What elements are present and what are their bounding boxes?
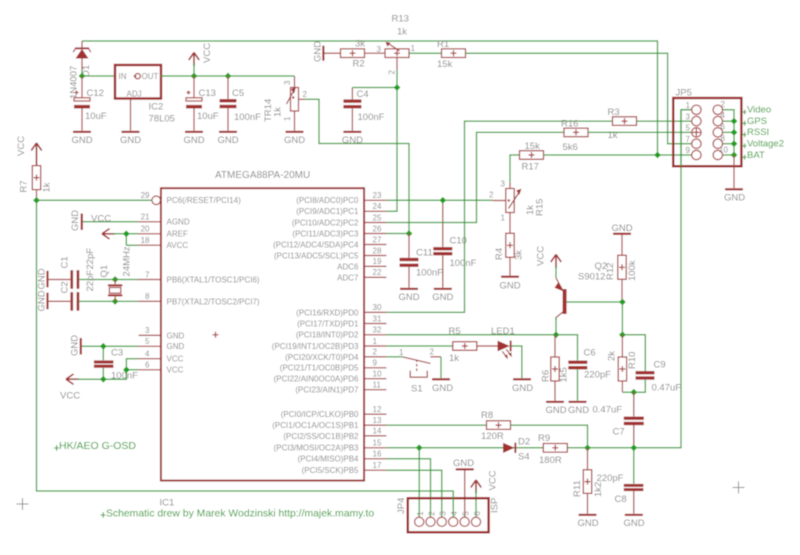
pin 24 (PCI9/ADC1)PC1 — [296, 202, 386, 216]
svg-text:PB6(XTAL1/TOSC1/PCI6): PB6(XTAL1/TOSC1/PCI6) — [167, 275, 260, 284]
wire R5 to LED1 — [477, 345, 498, 347]
svg-text:VCC: VCC — [16, 136, 27, 156]
node junction rail/pin9 — [654, 152, 661, 159]
svg-text:(PCI19/INT1/OC2B)PD3: (PCI19/INT1/OC2B)PD3 — [272, 342, 359, 351]
pin 25 (PCI10/ADC2)PC2 — [292, 213, 387, 227]
wire VCC to pins 4/6 — [77, 359, 138, 380]
ground GND rotated at R2 — [313, 41, 341, 62]
svg-text:2: 2 — [721, 100, 726, 109]
svg-text:12: 12 — [373, 405, 382, 414]
svg-text:C3: C3 — [111, 348, 123, 359]
svg-text:VCC: VCC — [202, 43, 213, 63]
svg-text:C5: C5 — [232, 88, 244, 99]
LED LED1 — [491, 326, 515, 360]
svg-text:16: 16 — [373, 450, 382, 459]
ground GND rotated at pin5 — [70, 335, 82, 356]
power VCC arrow top — [189, 43, 213, 66]
svg-text:5: 5 — [686, 124, 691, 133]
pin 21 AGND — [138, 213, 190, 227]
ground GND under C4 — [342, 131, 363, 146]
svg-text:Schematic drew by Marek Wodzin: Schematic drew by Marek Wodzinski http:/… — [106, 509, 374, 520]
ground GND under TR14 — [284, 131, 305, 146]
wire R1 to JP5 pin7 — [466, 53, 692, 144]
pin 19 ADC6 — [337, 257, 386, 271]
svg-text:D2: D2 — [518, 437, 530, 448]
svg-text:1N4007: 1N4007 — [69, 66, 80, 99]
svg-text:120R: 120R — [481, 431, 504, 442]
wire Q2 collector down — [555, 317, 557, 335]
svg-text:1k: 1k — [397, 27, 407, 38]
capacitor C12 — [74, 76, 107, 131]
ground GND rotated at pin21 AGND — [70, 210, 83, 231]
pin 1 (PCI19/INT1/OC2B)PD3 — [272, 337, 387, 351]
svg-text:26: 26 — [373, 224, 382, 233]
wire XTAL2 — [79, 300, 138, 302]
ground GND under C13 — [183, 131, 204, 146]
pin 28 (PCI13/ADC5/SCL)PC5 — [274, 246, 386, 260]
wire XTAL1 — [79, 279, 138, 281]
svg-text:5k6: 5k6 — [563, 142, 578, 153]
pin JP4-1 — [415, 511, 425, 527]
svg-text:HK/AEO G-OSD: HK/AEO G-OSD — [59, 440, 136, 452]
pin 9 (PCI21/T1/OC0B)PD5 — [280, 359, 387, 373]
svg-text:10: 10 — [373, 370, 382, 379]
wire R10 bottom to C7 — [622, 391, 633, 393]
capacitor C9 0.47uF — [634, 360, 681, 394]
ground GND under R11 — [577, 514, 598, 529]
wire RESET net — [37, 200, 454, 517]
svg-text:GND: GND — [342, 135, 363, 146]
svg-text:2k: 2k — [607, 351, 618, 361]
node junction XTAL2 — [112, 298, 119, 305]
node junction pin26/C11 — [406, 230, 413, 237]
node junction C3 bottom — [100, 376, 107, 383]
svg-text:100nF: 100nF — [358, 112, 385, 123]
pin 26 (PCI11/ADC3)PC3 — [292, 224, 386, 238]
svg-text:VCC: VCC — [60, 391, 80, 402]
ground GND under IC2 ADJ — [120, 131, 141, 146]
wire TR14 wiper to PC3 pin26 — [305, 99, 409, 233]
wire VCC to rail — [193, 63, 195, 76]
svg-text:R4: R4 — [494, 248, 505, 260]
node label BAT — [742, 150, 765, 161]
regulator IC2 78L05 — [115, 65, 175, 125]
wire VCC to Q2 emitter — [555, 266, 557, 278]
svg-text:GND: GND — [512, 383, 533, 394]
capacitor C6 220pF — [568, 348, 611, 401]
svg-text:GND: GND — [167, 331, 185, 340]
svg-text:(PCI13/ADC5/SCL)PC5: (PCI13/ADC5/SCL)PC5 — [274, 251, 359, 260]
svg-text:100k: 100k — [627, 260, 638, 281]
svg-text:(PCI21/T1/OC0B)PD5: (PCI21/T1/OC0B)PD5 — [280, 364, 359, 373]
svg-text:180R: 180R — [539, 455, 562, 466]
ground GND under JP5 — [724, 188, 745, 203]
svg-text:3: 3 — [377, 45, 382, 54]
svg-text:GND: GND — [545, 405, 566, 416]
svg-text:GND: GND — [398, 292, 419, 303]
pin 7 PB6(XTAL1/TOSC1/PCI6) — [138, 270, 260, 284]
ground GND above R12 (inverted) — [611, 223, 632, 255]
svg-text:R5: R5 — [449, 326, 461, 337]
svg-text:3k: 3k — [514, 250, 525, 260]
node junction R9/R8/R11 — [584, 444, 591, 451]
svg-text:2: 2 — [373, 348, 378, 357]
svg-text:R8: R8 — [481, 410, 493, 421]
pin 6 VCC — [138, 361, 184, 375]
pin 23 (PCI8/ADC0)PC0 — [296, 191, 386, 205]
svg-text:(PCI22/AIN0OC0A)PD6: (PCI22/AIN0OC0A)PD6 — [274, 375, 359, 384]
capacitor C8 220pF — [597, 448, 644, 514]
svg-text:VCC: VCC — [167, 355, 184, 364]
transistor Q2 S9012 — [555, 261, 608, 320]
node label Video — [742, 105, 771, 116]
capacitor C4 — [343, 88, 384, 131]
svg-text:BAT: BAT — [747, 150, 765, 161]
svg-text:C13: C13 — [199, 88, 216, 99]
pin 15 (PCI3/MOSI/OC2A)PB3 — [274, 439, 387, 453]
pin JP5-3 — [686, 112, 702, 126]
IC IC1 ATMEGA88PA-20MU — [160, 170, 365, 509]
resistor R11 1k2 — [572, 448, 604, 514]
svg-text:2: 2 — [430, 348, 435, 357]
svg-text:(PCI10/ADC2)PC2: (PCI10/ADC2)PC2 — [292, 218, 359, 227]
svg-text:1k: 1k — [608, 130, 618, 141]
svg-text:GND: GND — [568, 405, 589, 416]
svg-text:GND: GND — [183, 135, 204, 146]
wire pin23 to R15 wiper — [386, 199, 492, 201]
svg-text:0.47uF: 0.47uF — [652, 383, 682, 394]
wire pin30 to R3 — [386, 121, 612, 312]
svg-text:1: 1 — [411, 44, 416, 53]
node junction JP5 pin8 — [731, 140, 738, 147]
wire LED1 to ground — [512, 346, 522, 378]
svg-text:3: 3 — [145, 326, 150, 335]
resistor R3 1k — [608, 107, 637, 141]
crystal Q1 24MHz — [99, 246, 133, 301]
resistor R7 1k — [19, 166, 53, 201]
svg-text:R17: R17 — [522, 162, 539, 173]
node junction pin6 — [123, 366, 130, 373]
ground GND under S1 — [432, 378, 453, 394]
pin 14 (PCI2/SS/OC1B)PB2 — [283, 427, 386, 441]
capacitor C5 — [220, 76, 262, 131]
svg-text:10uF: 10uF — [197, 111, 219, 122]
resistor R17 15k — [520, 141, 544, 173]
svg-text:Video: Video — [747, 105, 771, 116]
svg-text:2: 2 — [489, 191, 494, 200]
wire VCC to JP4 pin6 — [475, 490, 477, 517]
node junction R10/C9/C7 — [630, 389, 637, 396]
svg-text:R7: R7 — [19, 180, 30, 192]
svg-text:GND: GND — [70, 210, 81, 231]
svg-text:GND: GND — [70, 335, 81, 356]
wire JP4 pin1 down — [418, 448, 420, 517]
pin 31 (PCI17/TXD)PD1 — [297, 314, 386, 328]
svg-text:R9: R9 — [538, 433, 550, 444]
svg-text:220pF: 220pF — [584, 369, 611, 380]
svg-text:GND: GND — [37, 290, 48, 311]
svg-text:7: 7 — [686, 135, 691, 144]
pin JP5-7 — [686, 135, 702, 149]
node junction D1/C12 — [79, 73, 86, 80]
resistor R16 5k6 — [561, 118, 588, 153]
svg-text:7: 7 — [145, 270, 150, 279]
pin 29 PC6(/RESET/PCI14) — [141, 191, 241, 205]
pin JP5-4 — [713, 111, 725, 126]
pin 27 (PCI12/ADC4/SDA)PC4 — [273, 235, 386, 249]
svg-text:S9012: S9012 — [578, 272, 605, 283]
svg-text:9: 9 — [373, 359, 378, 368]
svg-text:100nF: 100nF — [234, 112, 261, 123]
wire R8 to video node — [511, 425, 588, 448]
wire R2 to R13 — [365, 52, 386, 54]
wire top rail VCCIN — [82, 41, 658, 155]
node junction R10 top — [619, 331, 626, 338]
text credit line — [101, 509, 375, 520]
svg-text:14: 14 — [373, 427, 382, 436]
svg-text:AGND: AGND — [167, 218, 190, 227]
ground GND rotated at C2 — [37, 290, 49, 311]
svg-text:(PCI20/XCK/T0)PD4: (PCI20/XCK/T0)PD4 — [285, 353, 359, 362]
wire IC2 OUT rail — [161, 75, 295, 77]
pin 10 (PCI22/AIN0OC0A)PD6 — [274, 370, 387, 384]
capacitor C13 — [186, 76, 219, 131]
svg-text:20: 20 — [141, 225, 150, 234]
svg-text:24: 24 — [373, 202, 382, 211]
wire pin25 to R16 — [386, 132, 564, 222]
ground GND rotated at C1 — [37, 268, 49, 289]
svg-text:GPS: GPS — [747, 116, 767, 127]
ground GND under C10 — [432, 288, 453, 303]
pin JP4-5 — [460, 511, 470, 527]
svg-text:GND: GND — [432, 383, 453, 394]
svg-text:1k2: 1k2 — [593, 482, 604, 497]
svg-text:31: 31 — [373, 314, 382, 323]
svg-text:1: 1 — [501, 214, 506, 223]
svg-text:32: 32 — [373, 326, 382, 335]
svg-text:22pF: 22pF — [85, 248, 96, 270]
svg-text:(PCI18/INT0)PD2: (PCI18/INT0)PD2 — [296, 331, 359, 340]
svg-text:AREF: AREF — [167, 230, 188, 239]
pin 8 PB7(XTAL2/TOSC2/PCI7) — [138, 292, 260, 306]
pin 18 AVCC — [138, 236, 188, 250]
svg-text:C12: C12 — [87, 88, 104, 99]
svg-text:GND: GND — [499, 281, 520, 292]
wire JP5 pin1 internal — [681, 110, 692, 166]
svg-text:(PCI17/TXD)PD1: (PCI17/TXD)PD1 — [297, 319, 359, 328]
resistor R2 3k — [341, 39, 366, 70]
diode D1 — [69, 41, 93, 99]
svg-text:1k: 1k — [273, 107, 284, 117]
svg-text:17: 17 — [373, 461, 382, 470]
svg-text:GND: GND — [217, 135, 238, 146]
svg-text:1: 1 — [283, 116, 292, 121]
pin JP5-1 — [686, 101, 702, 115]
wire pin32 to Q2 collector — [386, 334, 556, 336]
svg-text:S1: S1 — [411, 384, 423, 395]
switch S1 — [399, 348, 441, 395]
resistor R5 1k — [449, 326, 477, 364]
pin JP5-6 — [713, 123, 725, 138]
svg-text:2: 2 — [303, 90, 308, 99]
svg-text:5: 5 — [145, 337, 150, 346]
wire pin1 to R5 — [386, 345, 452, 347]
svg-text:8: 8 — [721, 134, 726, 143]
capacitor C11 — [400, 234, 444, 288]
ground GND under R4 — [499, 276, 520, 292]
svg-text:R15: R15 — [535, 199, 546, 216]
svg-text:30: 30 — [373, 303, 382, 312]
ground GND under C6 — [568, 401, 589, 416]
pin 16 (PCI4/MISO)PB4 — [298, 450, 387, 464]
svg-text:(PCI5/SCK)PB5: (PCI5/SCK)PB5 — [302, 466, 359, 475]
pin 17 (PCI5/SCK)PB5 — [302, 461, 387, 475]
svg-text:11: 11 — [373, 381, 382, 390]
pin JP4-4 — [449, 511, 459, 527]
node junction VCC/C13 — [191, 73, 198, 80]
svg-text:27: 27 — [373, 235, 382, 244]
wire pin13 to R8 — [386, 424, 486, 426]
svg-text:1k: 1k — [42, 182, 53, 192]
node label RSSI — [742, 127, 769, 138]
pin 2 (PCI20/XCK/T0)PD4 — [285, 348, 386, 362]
svg-text:ATMEGA88PA-20MU: ATMEGA88PA-20MU — [215, 170, 310, 181]
svg-text:ADC7: ADC7 — [337, 273, 359, 282]
ground GND under C11 — [398, 288, 419, 303]
power VCC above R7 — [16, 136, 42, 166]
svg-text:23: 23 — [373, 191, 382, 200]
pin 4 VCC — [138, 350, 184, 364]
svg-text:4: 4 — [145, 350, 150, 359]
svg-text:10uF: 10uF — [85, 111, 107, 122]
svg-text:10: 10 — [719, 145, 728, 154]
svg-text:78L05: 78L05 — [149, 114, 175, 125]
svg-text:C1: C1 — [60, 256, 71, 268]
svg-text:15k: 15k — [437, 59, 453, 70]
resistor R12 100k — [605, 255, 638, 302]
svg-text:1: 1 — [416, 511, 425, 516]
svg-text:(PCI8/ADC0)PC0: (PCI8/ADC0)PC0 — [296, 196, 359, 205]
node junction base/R12 — [619, 299, 626, 306]
pin 3 GND — [139, 326, 185, 340]
pin 32 (PCI18/INT0)PD2 — [296, 326, 387, 340]
svg-text:(PCI9/ADC1)PC1: (PCI9/ADC1)PC1 — [296, 207, 359, 216]
pin JP5-2 — [713, 100, 725, 115]
svg-text:GND: GND — [284, 135, 305, 146]
svg-text:GND: GND — [611, 223, 632, 234]
svg-text:PB7(XTAL2/TOSC2/PCI7): PB7(XTAL2/TOSC2/PCI7) — [167, 297, 260, 306]
wire R17 to JP5 pin9 — [544, 154, 692, 156]
svg-text:LED1: LED1 — [491, 326, 515, 337]
svg-text:1: 1 — [399, 348, 404, 357]
wire R16 to JP5 pin5 — [588, 131, 692, 133]
svg-text:22pF: 22pF — [85, 270, 96, 292]
svg-text:3: 3 — [439, 511, 448, 516]
wire R13 wiper to C4 and pin24 — [352, 70, 397, 211]
svg-text:6: 6 — [721, 123, 726, 132]
power VCC arrow left bottom — [60, 374, 80, 402]
pin 20 AREF — [138, 225, 188, 239]
svg-text:ISP: ISP — [490, 498, 501, 513]
svg-text:220pF: 220pF — [597, 473, 624, 484]
svg-text:ADJ: ADJ — [127, 90, 142, 99]
svg-text:C2: C2 — [60, 281, 71, 293]
node junction XTAL1 — [112, 276, 119, 283]
svg-text:C6: C6 — [584, 348, 596, 359]
svg-text:9: 9 — [686, 146, 691, 155]
svg-text:(PCI4/MISO)PB4: (PCI4/MISO)PB4 — [298, 455, 359, 464]
svg-text:1k5: 1k5 — [559, 367, 570, 382]
node label Voltage2 — [742, 139, 784, 150]
svg-text:100nF: 100nF — [416, 268, 443, 279]
svg-text:3k: 3k — [355, 39, 365, 50]
svg-text:13: 13 — [373, 416, 382, 425]
wire JP5 tie to ground — [733, 155, 735, 188]
capacitor C1 22pF — [49, 248, 96, 289]
resistor R8 120R — [481, 410, 511, 442]
svg-text:R6: R6 — [541, 370, 552, 382]
ground GND under LED1 — [512, 378, 533, 394]
wire R3 to JP5 pin3 — [637, 120, 692, 122]
svg-text:(PCI0/ICP/CLKO)PB0: (PCI0/ICP/CLKO)PB0 — [281, 410, 359, 419]
svg-text:28: 28 — [373, 246, 382, 255]
svg-text:15k: 15k — [525, 141, 541, 152]
wire collector node to C6 — [556, 335, 578, 360]
svg-text:GND: GND — [453, 458, 474, 469]
connector JP5 — [673, 88, 741, 167]
node junction JP4 pin1 tap — [416, 444, 423, 451]
text HK/AEO G-OSD — [54, 440, 136, 452]
power VCC arrow left at AREF — [91, 213, 115, 239]
svg-text:1k: 1k — [449, 353, 459, 364]
trimmer R15 1k — [489, 180, 546, 234]
wire Q2 base to R12 — [567, 301, 623, 303]
pin 22 ADC7 — [337, 268, 386, 282]
resistor R1 15k — [437, 39, 466, 70]
pin JP4-6 — [471, 511, 481, 527]
svg-text:GND: GND — [724, 193, 745, 204]
ground GND above JP4 pin5 (inverted) — [453, 458, 474, 517]
svg-text:R10: R10 — [627, 352, 638, 369]
svg-text:2: 2 — [427, 511, 436, 516]
svg-text:Q1: Q1 — [99, 265, 110, 278]
connector JP4 ISP — [396, 498, 501, 533]
ground GND under R6 — [545, 401, 566, 416]
svg-text:GND: GND — [167, 342, 185, 351]
capacitor C10 — [433, 200, 476, 287]
svg-text:R2: R2 — [353, 59, 365, 70]
svg-text:25: 25 — [373, 213, 382, 222]
node junction C3 top — [100, 343, 107, 350]
svg-text:15: 15 — [373, 439, 382, 448]
ground GND under C5 — [217, 131, 238, 146]
resistor R6 1k5 — [541, 335, 570, 401]
svg-text:C7: C7 — [613, 427, 625, 438]
svg-text:JP5: JP5 — [676, 88, 692, 99]
node junction RESET — [33, 197, 40, 204]
svg-text:GND: GND — [313, 41, 324, 62]
svg-text:(PCI12/ADC4/SDA)PC4: (PCI12/ADC4/SDA)PC4 — [273, 240, 359, 249]
node junction pin23/C10 — [439, 197, 446, 204]
svg-text:3: 3 — [686, 112, 691, 121]
node junction C5 tap — [225, 73, 232, 80]
pin 11 (PCI23/AIN1)PD7 — [295, 381, 386, 395]
svg-text:GND: GND — [71, 135, 92, 146]
svg-text:IC1: IC1 — [160, 498, 175, 509]
node label GPS — [742, 116, 767, 127]
resistor R4 3k — [494, 233, 525, 275]
diode D2 S4 — [503, 437, 530, 463]
